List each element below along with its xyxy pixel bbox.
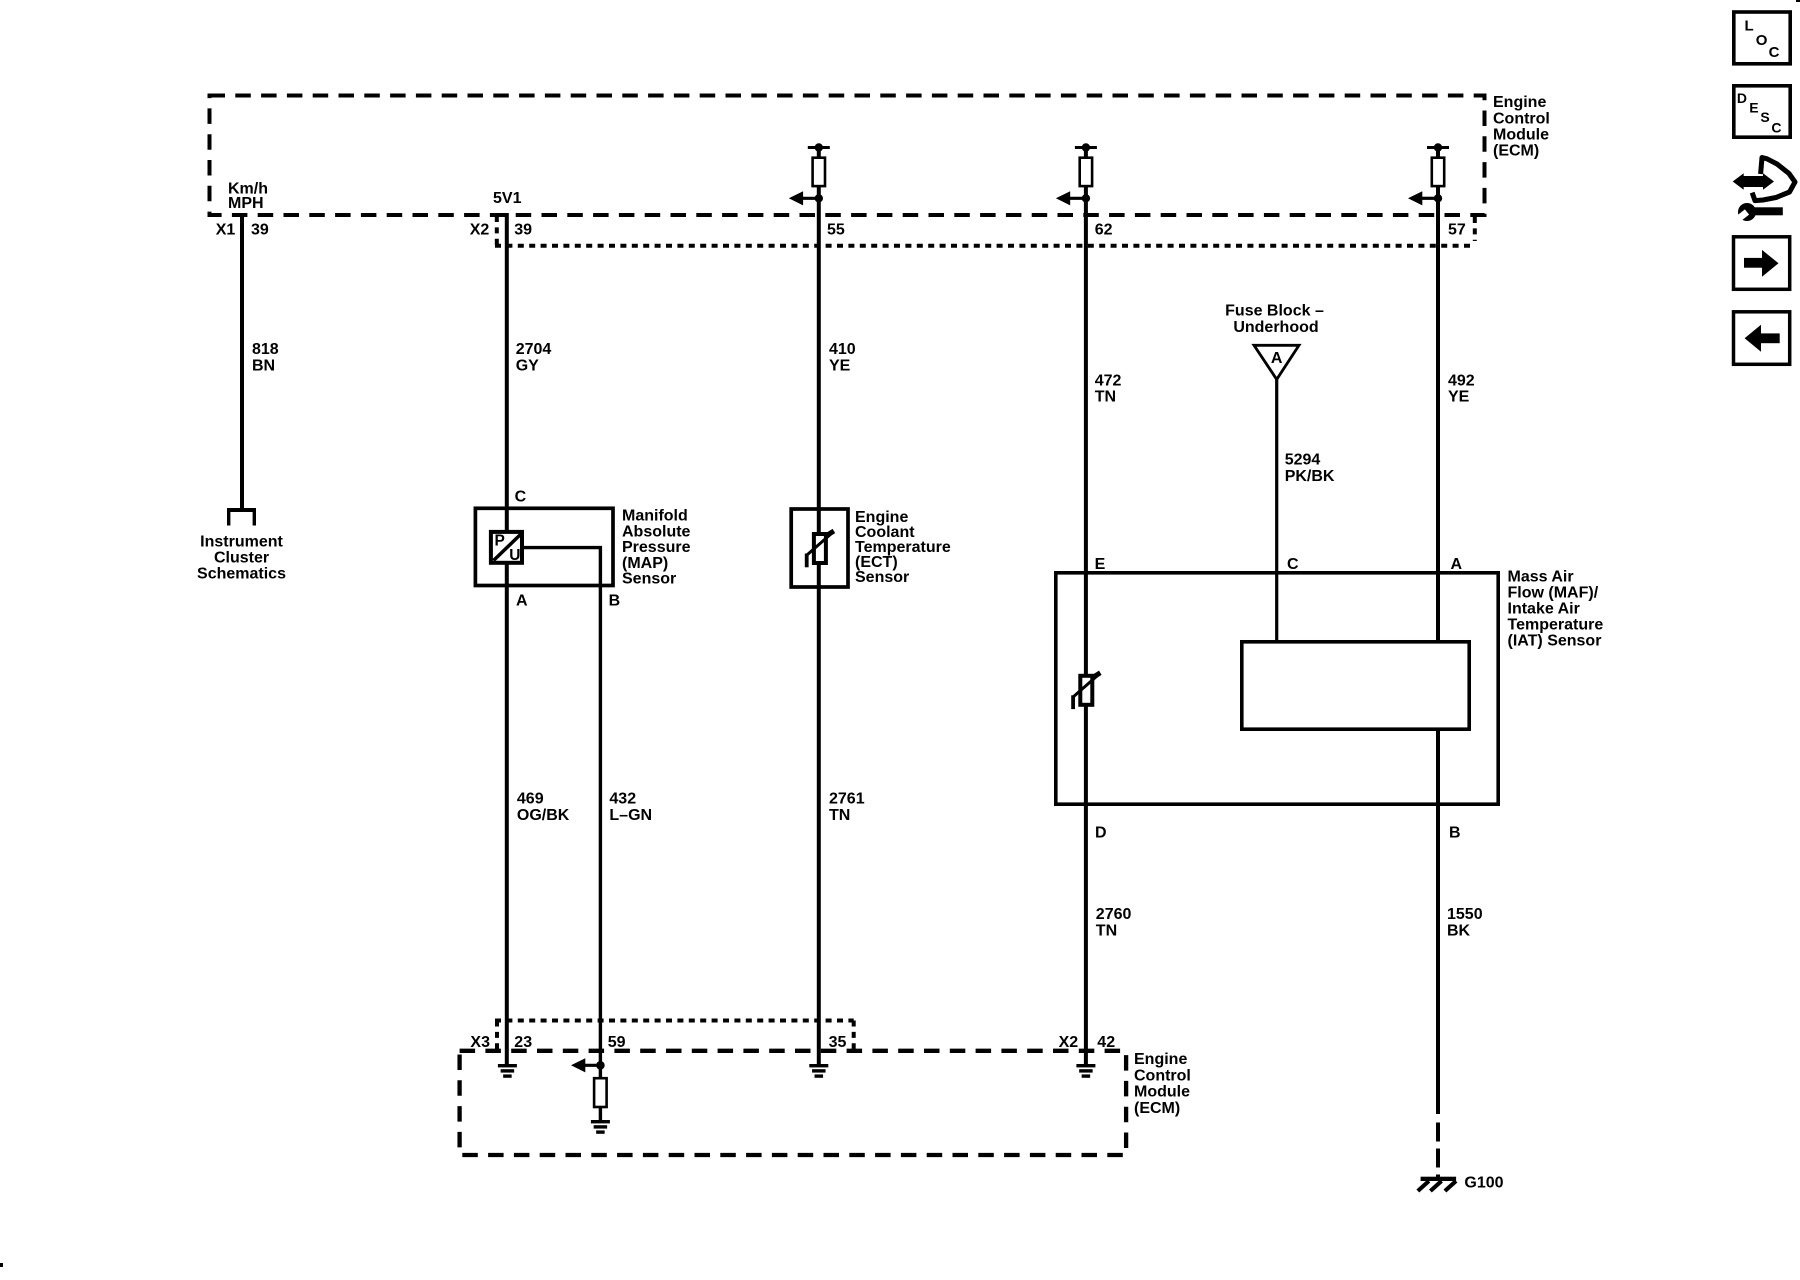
svg-text:Manifold: Manifold: [622, 508, 688, 525]
svg-text:D: D: [1095, 825, 1107, 842]
svg-text:L–GN: L–GN: [609, 807, 652, 824]
svg-text:62: 62: [1095, 222, 1113, 239]
svg-text:57: 57: [1448, 222, 1466, 239]
svg-text:TN: TN: [1095, 389, 1116, 406]
svg-text:BN: BN: [252, 357, 275, 374]
svg-text:5V1: 5V1: [493, 190, 522, 207]
svg-text:S: S: [1760, 109, 1769, 125]
svg-text:B: B: [609, 593, 621, 610]
svg-text:410: 410: [829, 341, 856, 358]
svg-text:Instrument: Instrument: [200, 534, 283, 551]
instrument cluster off-page connector: [227, 508, 256, 526]
svg-text:L: L: [1745, 18, 1754, 35]
svg-text:Mass Air: Mass Air: [1508, 569, 1574, 586]
svg-text:O: O: [1756, 32, 1768, 49]
svg-text:GY: GY: [516, 357, 539, 374]
svg-text:U: U: [509, 547, 520, 564]
svg-text:BK: BK: [1447, 923, 1471, 940]
svg-text:39: 39: [514, 222, 532, 239]
svg-text:X3: X3: [470, 1034, 490, 1051]
svg-text:(ECM): (ECM): [1134, 1100, 1180, 1117]
svg-text:X1: X1: [216, 222, 236, 239]
svg-text:Underhood: Underhood: [1233, 319, 1318, 336]
MAP sensor box: [475, 508, 613, 585]
svg-text:TN: TN: [829, 807, 850, 824]
harness routing / wrench icon: [1733, 158, 1795, 224]
svg-text:OG/BK: OG/BK: [517, 807, 570, 824]
svg-text:(MAP): (MAP): [622, 555, 668, 572]
MAF sensing element box: [1242, 642, 1469, 729]
svg-text:Pressure: Pressure: [622, 539, 691, 556]
connector X2 dotted strip (top): [495, 216, 1475, 248]
fuse block triangle A: [1254, 345, 1299, 379]
svg-text:A: A: [516, 593, 528, 610]
svg-text:2760: 2760: [1096, 906, 1132, 923]
svg-text:D: D: [1737, 90, 1747, 106]
svg-text:C: C: [1287, 556, 1299, 573]
ground symbol pin 42: [1076, 1064, 1095, 1078]
svg-text:Sensor: Sensor: [622, 571, 676, 588]
svg-text:PK/BK: PK/BK: [1285, 468, 1335, 485]
ground symbol pin 23: [498, 1064, 517, 1078]
MAP sensor P/U transducer box: [491, 532, 522, 563]
ECT sensor box: [791, 509, 848, 587]
svg-text:G100: G100: [1464, 1174, 1503, 1191]
wire 818 BN (X1-39 to instrument cluster): [240, 215, 244, 508]
svg-text:5294: 5294: [1285, 452, 1321, 469]
svg-text:469: 469: [517, 791, 544, 808]
svg-text:55: 55: [827, 222, 845, 239]
svg-text:Control: Control: [1493, 110, 1550, 127]
svg-text:E: E: [1095, 556, 1106, 573]
svg-text:C: C: [515, 489, 527, 506]
pin 59 pull-down: arrow, resistor, ground: [571, 1058, 607, 1107]
connector X3 dotted strip (bottom): [495, 1021, 854, 1050]
G100 chassis ground: [1418, 1177, 1456, 1191]
svg-text:Engine: Engine: [1134, 1051, 1187, 1068]
wire 432 L-GN (MAP sensor pin B to ECM X3-59): [524, 548, 601, 1120]
svg-text:59: 59: [608, 1034, 626, 1051]
svg-text:23: 23: [514, 1034, 532, 1051]
svg-text:Module: Module: [1134, 1084, 1190, 1101]
svg-text:Absolute: Absolute: [622, 523, 691, 540]
svg-text:B: B: [1449, 825, 1461, 842]
svg-text:2704: 2704: [516, 341, 552, 358]
svg-text:818: 818: [252, 341, 279, 358]
svg-text:Schematics: Schematics: [197, 566, 286, 583]
svg-text:2761: 2761: [829, 791, 865, 808]
svg-text:C: C: [1771, 120, 1781, 136]
svg-text:YE: YE: [829, 357, 851, 374]
svg-text:1550: 1550: [1447, 906, 1483, 923]
svg-text:432: 432: [609, 791, 636, 808]
wire 410 YE / 2761 TN (ECM 55 through ECT sensor to ECM X3-35): [817, 148, 821, 1065]
svg-text:Engine: Engine: [1493, 94, 1546, 111]
wire 472 TN / 2760 TN (ECM 62 through MAF-IAT pin E to pin D, ECM X2-42): [1084, 148, 1088, 1065]
svg-text:42: 42: [1097, 1034, 1115, 1051]
svg-text:492: 492: [1448, 372, 1475, 389]
LOC nav box: [1734, 12, 1790, 64]
svg-text:(IAT) Sensor: (IAT) Sensor: [1508, 633, 1602, 650]
svg-text:Cluster: Cluster: [214, 550, 269, 567]
svg-text:Module: Module: [1493, 127, 1549, 144]
wire 1550 BK dashed tail to G100: [1436, 1123, 1440, 1179]
5V reference resistor U1a (wire 55): [789, 143, 830, 205]
svg-text:MPH: MPH: [228, 195, 264, 212]
svg-text:35: 35: [829, 1034, 847, 1051]
svg-text:39: 39: [251, 222, 269, 239]
svg-text:X2: X2: [1059, 1034, 1079, 1051]
svg-text:Temperature: Temperature: [1508, 617, 1604, 634]
wire 492 YE / 1550 BK (ECM 57 through MAF-IAT pin A to pin B): [1436, 148, 1440, 1115]
svg-text:A: A: [1451, 556, 1463, 573]
page corner speck bottom left: [0, 1263, 3, 1267]
IAT thermistor: [1073, 673, 1101, 709]
ECM bottom dashed box: [460, 1051, 1127, 1155]
back nav box: [1734, 312, 1790, 365]
svg-text:P: P: [495, 532, 505, 549]
ECM top dashed box: [210, 96, 1485, 216]
svg-text:E: E: [1749, 100, 1758, 116]
svg-text:(ECM): (ECM): [1493, 143, 1539, 160]
page corner speck top right: [1796, 0, 1800, 2]
svg-text:Intake Air: Intake Air: [1508, 601, 1580, 618]
svg-text:Sensor: Sensor: [855, 569, 909, 586]
wire 2704 GY / 469 OG-BK (5V1 X2-39 through MAP sensor pin C to pin A, ECM X3-23): [505, 213, 509, 1064]
ground symbol pin 35: [809, 1064, 828, 1078]
ECT thermistor: [806, 531, 834, 567]
svg-text:472: 472: [1095, 372, 1122, 389]
svg-text:Control: Control: [1134, 1067, 1191, 1084]
DESC nav box: [1734, 86, 1790, 137]
svg-text:YE: YE: [1448, 389, 1470, 406]
5V reference resistor U1b (wire 62): [1056, 143, 1097, 205]
svg-text:X2: X2: [470, 222, 490, 239]
svg-text:Flow (MAF)/: Flow (MAF)/: [1508, 585, 1599, 602]
MAF/IAT sensor box: [1056, 573, 1498, 804]
forward nav box: [1734, 237, 1790, 289]
svg-text:Fuse Block –: Fuse Block –: [1225, 303, 1324, 320]
wire 5294 PK-BK (fuse block to MAF-IAT pin C): [1275, 379, 1278, 641]
5V reference resistor U1c (wire 57): [1408, 143, 1449, 205]
svg-text:A: A: [1271, 350, 1283, 367]
svg-text:C: C: [1769, 44, 1780, 61]
svg-text:TN: TN: [1096, 923, 1117, 940]
